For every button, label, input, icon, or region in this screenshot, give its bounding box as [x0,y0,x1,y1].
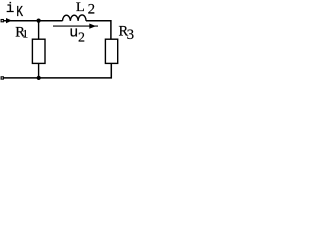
svg-text:u: u [69,25,78,42]
svg-text:3: 3 [127,27,135,43]
svg-text:i: i [6,1,14,17]
svg-text:K: K [16,4,23,21]
svg-text:1: 1 [22,27,28,41]
svg-text:2: 2 [78,31,85,46]
svg-text:L: L [76,0,85,14]
svg-text:2: 2 [88,1,96,17]
